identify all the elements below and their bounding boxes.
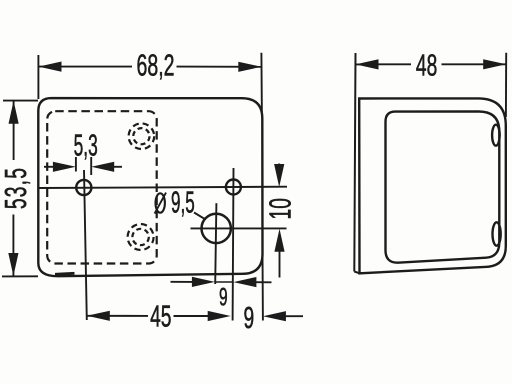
label Ø diameter symbol xyxy=(155,193,166,214)
lower screw boss (hidden), outer circle xyxy=(128,224,154,250)
tab on housing bottom edge xyxy=(55,273,75,274)
dim 10 line lower tail xyxy=(279,248,281,278)
dim 48 right arrowhead xyxy=(483,59,506,69)
dim 10 lower arrowhead (up to hole line) xyxy=(274,229,284,252)
extension of housing right edge down to 9 dim xyxy=(262,252,264,321)
dim 9 upper line between tips xyxy=(215,281,233,283)
dim 68,2 left extension line xyxy=(37,55,39,99)
dim 68,2 line right segment xyxy=(177,66,262,68)
horizontal centerline through mounting holes xyxy=(39,187,287,188)
svg-text:5,3: 5,3 xyxy=(74,128,98,163)
dim 9 upper right arrowhead (outside) xyxy=(233,277,256,287)
lamp housing outline (front view) xyxy=(38,98,262,276)
dim 68,2 line left segment xyxy=(39,66,133,68)
dim 45 right arrowhead xyxy=(208,311,231,321)
dim 5,3 right extension line xyxy=(90,157,92,175)
dim 9 upper line left tail xyxy=(171,281,194,283)
dim 53,5 line upper segment xyxy=(13,101,15,160)
dim 68,2 right arrowhead xyxy=(238,62,261,72)
lower screw boss (hidden), inner circle xyxy=(132,229,148,245)
upper screw boss (hidden), inner circle xyxy=(133,128,149,144)
dim 68,2 left arrowhead xyxy=(39,62,62,72)
upper screw boss (hidden), outer circle xyxy=(129,123,155,149)
side view: dim 48 right extension line xyxy=(505,53,507,117)
svg-text:9: 9 xyxy=(219,284,228,312)
left mounting hole (5,3) xyxy=(76,180,91,195)
horizontal line through cable hole xyxy=(191,227,287,229)
right mounting hole xyxy=(226,180,241,195)
dim 53,5 bottom arrowhead xyxy=(8,253,18,276)
dim 45 line right segment xyxy=(174,315,210,317)
side view: lower screw slot xyxy=(493,222,501,245)
dim 10 upper arrowhead (down to centerline) xyxy=(274,164,284,187)
side view: housing body outline xyxy=(359,98,506,273)
svg-text:53,5: 53,5 xyxy=(0,167,33,209)
dim 48 line left segment xyxy=(356,63,412,65)
dim 10 line upper segment with arrow xyxy=(278,164,280,169)
svg-text:9,5: 9,5 xyxy=(171,185,195,220)
dim 9 lower arrowhead (outside right) xyxy=(263,311,286,321)
vertical line through left hole / extension to 45 dim xyxy=(84,170,87,320)
dim 48 line right segment xyxy=(442,63,507,65)
vertical line through right hole / extension to 45 and 9 dims xyxy=(232,168,235,321)
dim 9 upper right tail xyxy=(255,281,272,283)
side view: upper screw slot xyxy=(492,125,500,146)
dim 5,3 line left tail xyxy=(44,166,57,168)
dim 48 left arrowhead xyxy=(356,59,379,69)
label Ø 9,5 leader line xyxy=(194,213,205,219)
dim 9 upper left arrowhead (outside) xyxy=(192,277,215,287)
svg-text:45: 45 xyxy=(150,300,171,334)
dim 53,5 top arrowhead xyxy=(9,101,19,124)
dim 5,3 right arrowhead (outside) xyxy=(91,162,114,172)
dim 9 lower tail xyxy=(284,315,303,317)
dim 5,3 left arrowhead (outside) xyxy=(53,162,76,172)
side view: lens front outline xyxy=(386,112,500,263)
side view: front flange bottom xyxy=(354,272,359,274)
vertical line through cable hole / extension to 9 dim xyxy=(215,203,216,284)
dim 45 line left segment xyxy=(87,315,148,317)
dim 53,5 top extension line xyxy=(3,100,38,102)
svg-text:10: 10 xyxy=(264,198,298,219)
dim 5,3 right tail xyxy=(110,166,122,168)
svg-text:9: 9 xyxy=(244,302,255,336)
svg-text:68,2: 68,2 xyxy=(137,49,175,83)
dim 5,3 left extension line xyxy=(75,157,77,172)
dim 68,2 right extension line xyxy=(260,53,263,117)
dim 45 line left arrowhead xyxy=(87,311,110,321)
dim 53,5 bottom extension line xyxy=(2,275,38,277)
dim 53,5 line lower segment xyxy=(12,215,14,277)
cable hole Ø9,5 xyxy=(202,214,231,243)
svg-text:48: 48 xyxy=(416,49,437,83)
side view: dim 48 left extension / front flange left edge xyxy=(354,53,355,272)
lens area dashed outline (hidden) xyxy=(47,111,157,263)
